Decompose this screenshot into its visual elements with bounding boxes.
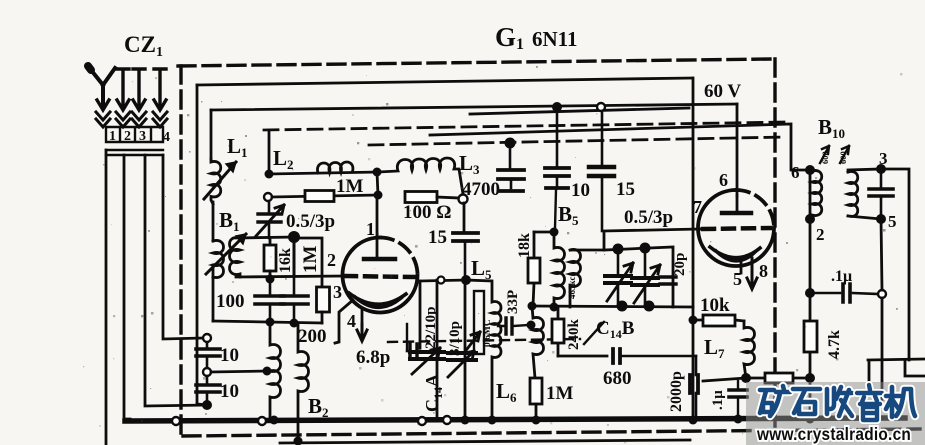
wire C14B2 leg [464,280,467,420]
capacitor sec [869,169,893,219]
node C14B top2 [640,243,651,254]
svg-text:0.6MC: 0.6MC [483,319,493,347]
svg-text:2: 2 [816,225,825,244]
node C14B bot1 [617,301,628,312]
connector base lines [106,150,163,155]
node cap10 mid top [552,102,562,112]
resistor R 10k [693,315,744,326]
wire B1 primary bottom down [212,265,215,321]
wire osc top rail [420,280,466,281]
triode U1a envelope dashed [380,238,418,276]
wire det rail [531,306,693,307]
resistor R 1M agc [305,191,334,202]
socket chevron 3 [132,112,146,127]
wire bottom return [280,440,690,443]
node B10 pin3 [876,164,886,174]
node bias mid [290,319,299,328]
wire C14B top [604,247,673,307]
antenna [88,66,115,103]
wire 4.7k to bus [809,378,812,419]
node open osc rail [438,277,445,284]
node B2 return [294,437,303,445]
resistor R 1M grid leak [317,287,330,312]
node B10 pin2 [805,214,815,224]
node open 15 top [597,103,605,111]
node bus open a [258,417,266,425]
scan noise [83,62,902,443]
svg-text:60 V: 60 V [704,81,741,102]
arrow B10 600 right [840,146,849,163]
wire 1M rail [272,195,378,197]
svg-text:3/10p: 3/10p [447,321,463,356]
svg-text:33P: 33P [505,290,521,314]
svg-text:2: 2 [124,129,131,144]
arrow pin4 [357,324,367,341]
wire inner top rail 60V [211,104,737,110]
wire pin2 down to bus [124,155,130,419]
plug pin 2 arrow [117,69,129,110]
inductor L5 core [474,291,484,354]
node B10 pin5 [876,214,886,224]
wire pin3 to edge [881,169,909,360]
wire af out [703,378,746,381]
svg-text:2: 2 [327,250,336,270]
wire cathode pin3 [335,300,353,343]
cathode U1b [710,247,760,261]
resistor R 240k [552,307,564,356]
node bus open c [443,416,451,424]
inductor L1 variable [204,159,236,204]
variable capacitor C14B [605,249,633,306]
arrow pin8 heater [747,258,757,289]
triode U1b envelope [698,190,774,266]
ground bus bottom [125,418,905,421]
transformer B1 [206,234,246,278]
wire grid shield drop [268,130,271,174]
wire to B10 primary [430,124,810,170]
wire cathode bias rail [213,321,322,323]
wire B10 sec bottom [848,216,881,219]
node 1M rail right [374,191,383,200]
capacitor 6.8p [407,324,420,359]
variable capacitor C14B2 [632,248,660,306]
wire solid box right [692,78,695,420]
inductor L5 winding [466,280,501,420]
node open 1M rail left [264,193,272,201]
transformer B2 secondary [298,324,309,441]
node .1u right left [805,288,815,298]
wire B1 secondary top [236,237,294,238]
svg-text:20p: 20p [672,253,688,276]
capacitor 4700 [498,143,524,191]
wire out right2 [905,360,925,376]
resistor R 18k [528,232,540,306]
wire af line [558,355,607,358]
node 33p right [527,321,536,330]
transformer B5 primary [554,232,565,307]
svg-text:5: 5 [888,212,897,231]
wire B1 secondary bottom to grid line [236,276,343,277]
svg-text:1M: 1M [336,176,364,197]
svg-text:10: 10 [220,345,239,366]
wire pin5 down [881,219,882,290]
svg-text:3: 3 [879,149,888,168]
antenna plug arrow [97,95,109,110]
node L5 top [461,275,471,285]
wire rails link [377,172,378,195]
watermark char yin [857,385,882,420]
node grid top [288,231,300,243]
node open 100ohm right [459,195,468,204]
wire 1M bottom [321,312,324,323]
node bias left [266,318,275,327]
triode U1a envelope [343,238,418,313]
svg-text:6: 6 [719,170,728,190]
watermark char shou [827,387,852,416]
wire 100ohm right [437,197,459,198]
grid U1a dashed [345,276,414,277]
node bus e [488,416,497,425]
wire plate drop to tube2 pin6 [736,104,739,196]
wire pin1 plate [376,196,379,257]
svg-text:15: 15 [428,227,447,248]
svg-text:4700: 4700 [462,179,500,200]
node B2 bus [270,416,279,425]
wire 16k stubs [269,238,272,279]
node open cap10 top [203,334,211,342]
svg-text:100 Ω: 100 Ω [403,202,451,223]
wire dashed shield line B [369,137,786,145]
watermark char ji [886,387,915,417]
wire solid box top [197,78,692,85]
watermark char shi [793,389,820,414]
svg-text:465kc: 465kc [567,276,577,299]
socket chevron 4 [153,112,167,127]
svg-text:5: 5 [733,269,742,289]
wire B5 grid top [534,231,554,234]
capacitor 10 lower [196,376,220,404]
capacitor 100 [255,279,284,321]
svg-text:4: 4 [163,130,170,145]
antenna socket chevron [96,112,110,127]
svg-text:8: 8 [759,261,768,281]
capacitor 2000p [690,356,698,420]
svg-text:22/10p: 22/10p [423,306,439,349]
svg-text:3: 3 [139,129,146,144]
node B5 top [550,228,559,237]
svg-text:680: 680 [603,368,632,389]
node B10 pin6 [805,165,815,175]
wire dashed shield line A [264,122,790,130]
svg-text:6: 6 [791,163,800,182]
svg-text:240k: 240k [566,319,582,351]
capacitor 15 left [453,233,478,277]
node bus d [461,416,470,425]
variable capacitor C14A 22/10p [410,348,444,374]
inductor L6 [532,306,544,378]
svg-text:600: 600 [820,151,830,164]
wire solid box left [196,85,199,404]
wire pin4 heater [361,308,364,325]
node bus open b [418,417,426,425]
svg-text:4.7k: 4.7k [826,330,843,359]
svg-text:10: 10 [571,180,590,201]
wire cap10 mid tap [211,371,267,372]
wire B10 primary left [809,170,812,219]
socket chevron 2 [116,112,130,127]
svg-text:.1μ: .1μ [710,390,726,410]
node open bus left [172,417,180,425]
wire second rail segment [470,108,689,114]
svg-text:10: 10 [220,381,239,402]
node open .1u right [878,290,886,298]
wire grid drop [293,237,296,276]
capacitor .1u left [729,381,747,418]
node bus h [734,415,743,424]
node bus g [689,416,698,425]
wire pin1 down [105,150,108,445]
wire pin6 plate2 [736,196,739,211]
svg-text:18k: 18k [516,233,533,258]
wire box edge to cap bottom [197,404,208,405]
wire pin3 down to cap bottom [145,155,208,406]
svg-text:200: 200 [298,326,327,347]
node 4.7k bottom [805,373,815,383]
wire grid2 line [604,229,700,250]
capacitor .1u right [810,284,878,302]
node det rail [550,303,559,312]
watermark background [746,382,925,445]
node L2 left [265,170,274,179]
node C14B bot2 [644,301,655,312]
svg-text:7: 7 [693,197,702,217]
wire C14A stator leg [419,281,422,348]
arrow L5 tuning [464,332,480,353]
wire cathode pin5 [740,259,743,273]
svg-text:1: 1 [109,129,116,144]
wire to 1M resistor [294,238,322,287]
svg-text:1: 1 [366,219,375,239]
resistor R 100ohm [405,192,437,203]
resistor R 4.7k [804,293,817,378]
wire out right [868,359,925,386]
inductor L2 [317,162,352,173]
dashed gang link [388,339,580,342]
capacitor 10 upper [196,341,220,368]
resistor R out [746,373,810,383]
cathode U1a [349,293,406,307]
svg-text:1M: 1M [546,383,574,404]
resistor R 1M det [530,378,542,420]
wire B5 sec top [572,249,604,252]
svg-text:www.crystalradio.cn: www.crystalradio.cn [756,425,911,444]
transformer B2 primary [270,322,281,420]
svg-text:100: 100 [216,291,245,312]
transformer B10 secondary [848,171,858,216]
wire L1 to B1 [212,202,215,241]
node C14B top1 [613,244,624,255]
trimmer 0.5/3p right [660,277,676,284]
svg-text:0.5/3p: 0.5/3p [286,211,335,232]
node 4700 top [505,138,516,149]
svg-text:0.5/3p: 0.5/3p [624,207,673,228]
svg-text:4: 4 [347,311,356,331]
svg-text:2000p: 2000p [668,371,685,412]
shield box dashed outer [178,59,920,441]
gang link diagonal [584,322,604,344]
capacitor 15 mid [589,111,614,231]
plug pin 4 arrow [154,69,166,110]
node L2 right [373,168,382,177]
resistor R 16k [264,245,276,271]
node 16k bottom [266,275,275,284]
wire node to cap15 [463,203,466,233]
trimmer capacitor 0.5/3p left [256,197,284,238]
triode U1b envelope dashed [736,190,774,228]
arrow B10 600 left [820,146,829,163]
node bus i [806,415,815,424]
svg-text:10k: 10k [700,295,730,316]
svg-text:G16N11: G16N11 [495,22,578,53]
watermark char kuang [760,386,790,416]
inductor L3 [378,158,463,194]
plate bar U1a [364,257,395,262]
transformer B5 secondary [570,249,581,307]
connector CZ1 box [106,127,163,142]
wire B10 sec top [848,169,881,172]
svg-text:.1μ: .1μ [831,268,852,285]
svg-text:1M: 1M [300,246,321,274]
svg-text:600: 600 [838,151,848,164]
svg-text:16k: 16k [277,248,294,273]
wire sec out down [881,298,884,400]
node 18k bottom [528,302,537,311]
inductor L7 [744,321,755,378]
node open cap10 mid [203,368,211,376]
capacitor 33p [498,318,528,334]
node bus f [532,416,541,425]
wire L2 rail [269,172,378,174]
capacitor 10 mid [545,107,569,228]
wire C14A rotor leg [436,280,439,420]
node tap on B2 [263,367,272,376]
wire inner left drop to L1 [210,110,213,159]
capacitor 680 [613,349,696,363]
wire pin4 down to cap top [163,155,202,339]
node cap10 bottom [202,400,212,410]
node 10k left [689,316,698,325]
transformer B10 primary [812,170,822,218]
svg-text:15: 15 [616,179,635,200]
variable capacitor C14A 3/10p [448,351,476,377]
svg-text:3: 3 [333,282,342,302]
node L7 bottom [741,373,751,383]
plug pin 3 arrow [133,69,145,110]
svg-text:6.8p: 6.8p [356,347,390,368]
wire pin2 down [809,219,812,293]
grid U1b dashed [703,228,770,229]
plate bar U1b [722,211,751,216]
capacitor 200 [281,276,308,323]
